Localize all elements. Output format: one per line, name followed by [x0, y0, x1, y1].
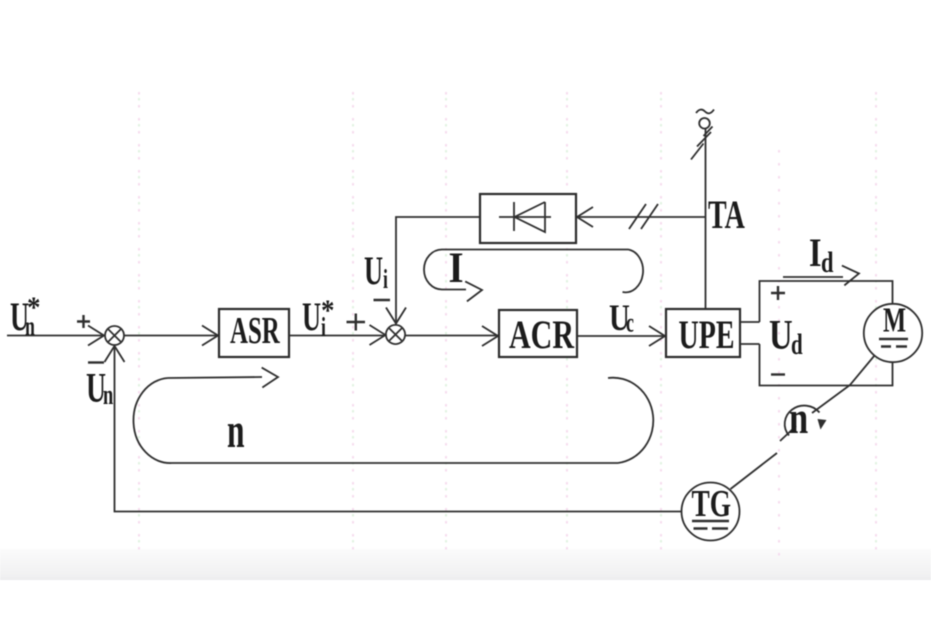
- label Id with arrow: [809, 231, 834, 279]
- arrow into ACR: [482, 326, 498, 346]
- armature circuit bottom wires: [760, 344, 893, 386]
- label Un feedback: [86, 364, 113, 411]
- svg-text:*: *: [321, 295, 334, 328]
- plus sign armature: [771, 286, 785, 300]
- svg-text:d: d: [791, 327, 803, 361]
- block ACR current regulator: [499, 310, 577, 357]
- speed loop right arc: [608, 378, 653, 463]
- svg-text:U: U: [364, 250, 383, 294]
- svg-text:TG: TG: [692, 483, 732, 525]
- summing junction 1: [105, 326, 124, 345]
- wire: speed feedback from TG to junction 1: [115, 346, 682, 512]
- svg-text:n: n: [103, 380, 113, 411]
- current loop top line: [442, 249, 629, 251]
- svg-text:i: i: [383, 264, 388, 294]
- minus sign armature: [771, 373, 785, 375]
- ac source terminal circle: [699, 118, 710, 129]
- svg-text:d: d: [821, 245, 834, 279]
- tilde above source: [696, 110, 714, 114]
- block UPE power converter: [666, 309, 740, 357]
- speed loop bottom line: [172, 462, 618, 464]
- wire: ACR to UPE: [577, 335, 665, 337]
- svg-text:n: n: [789, 392, 808, 443]
- svg-text:U: U: [769, 312, 793, 359]
- armature circuit left and top wires: [760, 281, 893, 322]
- label Un* input: [10, 292, 40, 341]
- motor M circle: [864, 300, 922, 362]
- wire: ASR to junction 2: [289, 335, 385, 337]
- wire: input Un* line: [7, 335, 104, 337]
- arrow into diode block: [577, 207, 593, 227]
- svg-text:UPE: UPE: [679, 313, 735, 357]
- current loop I: left arc with arrow tail: [424, 250, 466, 290]
- arrow into UPE: [649, 326, 665, 346]
- double slash on TA wire: [629, 204, 658, 229]
- svg-text:U: U: [302, 296, 321, 340]
- current loop arrow: [465, 280, 483, 301]
- svg-text:TA: TA: [708, 193, 745, 237]
- wire: junction1 to ASR: [124, 335, 218, 337]
- armature circuit: UPE output stubs: [740, 322, 760, 344]
- svg-text:*: *: [27, 292, 40, 325]
- label Ui current feedback: [364, 250, 388, 294]
- three phase slashes: [691, 127, 713, 160]
- speed loop top line with arrow: [168, 377, 262, 378]
- label Uc: [609, 298, 634, 339]
- svg-text:ASR: ASR: [230, 309, 280, 352]
- svg-text:ACR: ACR: [509, 312, 574, 357]
- summing junction 2: [386, 325, 405, 344]
- svg-text:c: c: [626, 308, 634, 338]
- label Ud: [769, 312, 803, 361]
- svg-text:n: n: [227, 404, 245, 459]
- wire: TA tap to diode block with double slash: [577, 216, 705, 218]
- rotation arrow around n: [785, 406, 820, 436]
- svg-text:I: I: [449, 244, 464, 291]
- arrow into junction 2: [370, 325, 386, 345]
- minus sign above junction 2: [374, 299, 391, 301]
- arrow into ASR: [202, 326, 218, 346]
- tacho generator TG circle: [682, 483, 740, 541]
- current loop right arc: [623, 250, 644, 293]
- speed loop n: left arc: [133, 378, 172, 463]
- wire: junction 2 to ACR: [405, 335, 498, 337]
- arrow up into junction 1: [105, 346, 125, 362]
- minus sign below junction 1: [88, 361, 104, 363]
- svg-text:I: I: [809, 231, 821, 275]
- arrow down into junction 2: [386, 308, 406, 324]
- block ASR speed regulator: [219, 309, 289, 357]
- wire: diode block to junction 2: [396, 217, 480, 324]
- label Ui*: [302, 295, 334, 342]
- plus sign at junction 2: [347, 314, 366, 331]
- shaft line TG to motor (broken segments): [731, 356, 875, 490]
- wire: TA vertical line to UPE: [705, 129, 707, 309]
- svg-text:M: M: [883, 300, 906, 339]
- arrow Id direction: [783, 276, 843, 278]
- plus sign at junction 1: [77, 315, 90, 328]
- diode block (rectifier): [480, 194, 576, 243]
- arrow into summing junction 1: [88, 326, 104, 346]
